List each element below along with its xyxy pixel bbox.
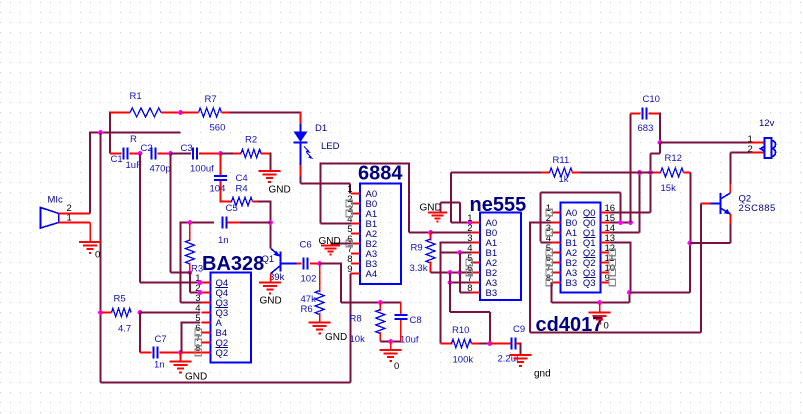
svg-text:R9: R9: [411, 243, 423, 254]
pin stub C6 left: [297, 263, 302, 265]
svg-text:GND: GND: [325, 332, 347, 343]
svg-text:C6: C6: [300, 240, 312, 251]
IC U-cd4017: [561, 203, 601, 293]
svg-text:R10: R10: [452, 325, 469, 336]
svg-text:102: 102: [301, 274, 317, 285]
node C6/R6 junction: [317, 261, 322, 266]
wire to BA328 pin8: [181, 352, 211, 354]
IC U-6884: [360, 184, 401, 285]
wire C4 to R4: [220, 201, 232, 203]
svg-text:15k: 15k: [661, 183, 677, 194]
wire R5 to BA328 pin4: [140, 312, 200, 314]
pin stub cd4017 pin8: [552, 282, 561, 284]
svg-text:3.3k: 3.3k: [410, 263, 428, 274]
pin stub 6884 pin4: [351, 223, 360, 225]
wire D1 to 6884 pin1: [300, 176, 302, 184]
pin stub ne555 pin8: [471, 292, 480, 294]
node C3/C4/R2 junction: [218, 151, 223, 156]
ground cd4017: [599, 303, 601, 313]
pin stub cd4017 pin12: [601, 252, 610, 254]
pin stub 6884 pin6: [351, 243, 360, 245]
pin stub C7 left: [140, 352, 152, 354]
node pin15 junction a: [618, 220, 623, 225]
pin marker box 6884 pin2: [346, 200, 352, 206]
wire C9 to gnd: [520, 343, 522, 355]
capacitor C2: [151, 148, 153, 160]
wire C5 left: [181, 222, 215, 224]
pin stub R8 top: [379, 303, 381, 312]
ground Q1: [259, 282, 281, 284]
capacitor C7: [153, 347, 155, 359]
pin stub R10 right: [472, 343, 480, 345]
node R10/C9 junction: [487, 341, 492, 346]
svg-text:12v: 12v: [759, 118, 775, 129]
pin stub R1 left: [110, 112, 130, 114]
wire C10 right vertical: [659, 113, 661, 143]
pin marker box cd4017 pin10: [609, 269, 615, 275]
svg-text:R11: R11: [553, 155, 570, 166]
ground 0: [390, 342, 392, 351]
pin stub ne555 pin6: [471, 272, 480, 274]
svg-text:C4: C4: [236, 173, 248, 184]
svg-text:C7: C7: [155, 334, 167, 345]
svg-text:R2: R2: [245, 135, 257, 146]
wire cd4017 pin8 gnd loop: [551, 283, 553, 303]
ground mic: [79, 241, 101, 243]
svg-text:6884: 6884: [358, 163, 403, 185]
resistor R11: [550, 168, 573, 177]
svg-text:0: 0: [95, 250, 100, 261]
resistor R7: [199, 108, 222, 117]
pin marker box cd4017 pin7: [546, 269, 552, 275]
capacitor C3: [192, 148, 194, 160]
capacitor C8: [400, 302, 402, 314]
pin stub R12 left: [653, 172, 661, 174]
pin stub C1 right: [130, 153, 141, 155]
pin stub R7 right: [222, 112, 230, 114]
pin stub C10 right: [649, 113, 661, 115]
pin stub R6 top: [319, 264, 321, 293]
wire 6884 pin9 down to rail: [351, 273, 360, 275]
node ne555 pin7 junction: [448, 280, 453, 285]
wire mic pin1 to ground: [89, 223, 91, 243]
wire R8 to C8 bottom: [380, 341, 401, 343]
svg-text:560: 560: [210, 123, 226, 134]
pin stub cd4017 pin7: [552, 272, 561, 274]
pin stub R5 left: [101, 312, 112, 314]
pin stub cd4017 pin15: [601, 222, 610, 224]
node V3 mid: [457, 270, 462, 275]
node cd4017 gnd stem: [597, 300, 602, 305]
pin marker box 6884 pin3: [346, 210, 352, 216]
wire cd4017 pin4/pin15 link: [541, 242, 552, 244]
transistor Q2: [711, 193, 731, 214]
pin marker box ne555 pin6: [466, 269, 472, 275]
svg-text:R4: R4: [236, 184, 248, 195]
svg-text:Q1: Q1: [262, 254, 275, 265]
svg-text:R8: R8: [350, 314, 362, 325]
resistor R2: [233, 153, 241, 155]
pin stub cd4017 pin5: [552, 252, 561, 254]
pin stub C7 right: [160, 352, 181, 354]
pin stub D1 anode: [300, 112, 302, 124]
capacitor C1: [123, 148, 125, 160]
wire R11 row to drop: [451, 172, 541, 174]
wire 6884 pin4 loop over top: [320, 163, 322, 224]
pin stub cd4017 pin11: [601, 262, 610, 264]
wire cd4017 pin2 from ne555 output: [530, 222, 552, 224]
svg-text:A4: A4: [366, 269, 378, 280]
pin marker box BA328 pin8: [195, 349, 201, 355]
svg-text:GND: GND: [319, 236, 341, 247]
node R1/R7 junction: [178, 110, 183, 115]
node ne555 pin1: [468, 220, 473, 225]
svg-text:683: 683: [638, 123, 654, 134]
node Q2 emitter junction: [688, 241, 693, 246]
wire C10 left vertical: [630, 114, 632, 223]
capacitor C4: [214, 175, 227, 177]
wire ne555 pin4: [441, 252, 472, 254]
pin stub R11 left: [541, 172, 550, 174]
pin stub BA328 pin6: [202, 332, 211, 334]
svg-text:R: R: [130, 134, 137, 145]
node C5/R3 junction: [188, 220, 193, 225]
wire top-left horizontal: [90, 132, 180, 134]
resistor R4: [232, 197, 253, 205]
wire long vertical x100: [100, 133, 102, 383]
wire loop down to R9 row: [408, 163, 410, 233]
svg-text:470p: 470p: [150, 164, 171, 175]
svg-text:R5: R5: [114, 294, 126, 305]
wire cd4017 pin16: [610, 212, 651, 214]
pin marker box cd4017 pin3: [546, 229, 552, 235]
svg-text:2SC885: 2SC885: [739, 203, 776, 214]
wire R9 bottom to ne555 pin6: [431, 272, 472, 274]
pin stub mic 2: [59, 213, 91, 215]
pin stub ne555 pin2: [471, 232, 480, 234]
IC U-ne555: [480, 213, 521, 301]
svg-text:8: 8: [467, 283, 472, 294]
pin stub BA328 pin5: [202, 322, 211, 324]
wire R8/C8 top: [341, 302, 401, 304]
wire output bottom horizontal: [530, 332, 701, 334]
svg-text:R1: R1: [130, 91, 142, 102]
svg-text:C8: C8: [410, 315, 422, 326]
ground 6884 pin6: [331, 243, 352, 245]
svg-text:10uf: 10uf: [400, 335, 419, 346]
pin stub cd4017 pin1: [552, 212, 561, 214]
node R9 top junction: [428, 230, 433, 235]
pin stub R9 top: [430, 233, 432, 241]
pin stub BA328 pin3: [202, 302, 211, 304]
svg-text:BA328: BA328: [202, 253, 264, 275]
svg-text:1k: 1k: [559, 174, 569, 185]
node R3 bottom junction: [188, 270, 193, 275]
wire C5 to collector node: [240, 222, 271, 224]
node junction x100: [98, 130, 103, 135]
wire C1 right vertical to BA328 pin1: [139, 154, 141, 283]
pin stub R1 right: [161, 112, 181, 114]
wire feedback x180 vertical: [180, 222, 182, 303]
pin stub C10 left: [631, 113, 641, 115]
pin marker box BA328 pin7: [195, 339, 201, 345]
svg-text:104: 104: [210, 184, 226, 195]
pin stub BA328 pin7: [202, 342, 211, 344]
pin stub BA328 pin4: [202, 312, 211, 314]
node 12v junction: [658, 140, 663, 145]
node R12 left junction: [648, 170, 653, 175]
pin stub C4 bottom: [220, 181, 222, 202]
resistor R8: [376, 310, 385, 334]
pin stub Q2 base: [701, 203, 711, 205]
wire ne555 pin7: [450, 282, 471, 284]
pin stub R8 bottom: [379, 332, 381, 342]
pin stub D1 cathode: [300, 165, 302, 177]
svg-text:R6: R6: [301, 304, 313, 315]
capacitor C5: [222, 217, 224, 229]
svg-text:C10: C10: [643, 94, 660, 105]
svg-text:100uf: 100uf: [190, 164, 214, 175]
capacitor C10: [642, 108, 644, 120]
wire BA328 pin3: [181, 302, 202, 304]
resistor R9: [426, 239, 435, 263]
pin marker box 6884 pin6: [346, 240, 352, 246]
svg-text:4.7: 4.7: [118, 324, 131, 335]
svg-text:C1: C1: [111, 154, 123, 165]
pin stub 6884 pin5: [351, 233, 360, 235]
node V2 top: [448, 270, 453, 275]
pin stub C9 right: [516, 343, 521, 345]
pin stub R7 left: [181, 112, 199, 114]
node C2/C3 junction: [168, 151, 173, 156]
wire Q2 base vertical: [700, 204, 702, 333]
node R5/C7/pin4 junction: [138, 310, 143, 315]
pin stub 12v pin2: [751, 152, 766, 154]
wire Q2 collector to 12v pin2: [729, 153, 731, 184]
wire output vertical x530: [529, 222, 531, 333]
svg-text:D1: D1: [315, 123, 327, 134]
wire to R2: [221, 153, 234, 155]
wire BA328 pin5 loop: [182, 322, 201, 324]
svg-text:ne555: ne555: [470, 194, 527, 216]
svg-text:C2: C2: [141, 143, 153, 154]
pin stub C5 right: [227, 222, 240, 224]
wire bottom rail: [101, 382, 351, 384]
wire R4 to Q1 collector: [258, 201, 271, 203]
wire 12v jog down: [659, 143, 661, 154]
pin stub 12v pin1: [751, 142, 766, 144]
LED D1: [294, 124, 314, 165]
node C1/C2 junction: [138, 151, 143, 156]
pin stub C1 left: [110, 153, 121, 155]
svg-text:R12: R12: [665, 153, 682, 164]
svg-text:C5: C5: [226, 203, 238, 214]
wire R10 to C9: [479, 343, 490, 345]
resistor R10: [452, 339, 472, 347]
pin stub Q2 emitter: [730, 214, 732, 224]
pin stub cd4017 pin3: [552, 232, 561, 234]
resistor R3: [189, 223, 191, 242]
pin stub R6 bottom: [319, 313, 321, 322]
pin stub ne555 pin7: [471, 282, 480, 284]
wire cd4017 pin14: [610, 232, 640, 234]
pin stub 6884 pin3: [351, 213, 360, 215]
svg-text:2: 2: [748, 144, 753, 155]
svg-text:LED: LED: [321, 141, 340, 152]
wire C6 to 6884 pin8: [320, 263, 341, 265]
connector 12v: [761, 138, 776, 158]
resistor R12: [661, 168, 684, 177]
wire R7 to D1: [230, 112, 301, 114]
pin stub R2 right: [261, 153, 271, 155]
wire 12v rail: [660, 142, 751, 144]
pin stub 6884 pin9: [351, 273, 360, 275]
pin stub cd4017 pin6: [552, 262, 561, 264]
wire ne555 gnd down to pin1: [459, 203, 461, 223]
pin stub BA328 pin8: [202, 352, 211, 354]
wire V1 vertical to R10: [440, 242, 442, 344]
pin marker box cd4017 pin12: [609, 249, 615, 255]
svg-text:GND: GND: [185, 372, 207, 383]
wire R2 to ground: [270, 153, 272, 170]
node ne555 pin4 junction: [457, 250, 462, 255]
node C5/collector junction: [268, 220, 273, 225]
pin stub cd4017 pin16: [601, 212, 610, 214]
svg-text:R7: R7: [205, 94, 217, 105]
node pin14 junction: [637, 170, 642, 175]
capacitor C9: [511, 338, 513, 350]
pin stub ne555 pin5: [471, 262, 480, 264]
pin stub 6884 pin1: [351, 193, 360, 195]
pin stub ne555 pin3: [471, 242, 480, 244]
wire V3 vertical: [459, 253, 461, 293]
capacitor C6: [303, 258, 305, 270]
wire R11 to R12: [580, 172, 653, 174]
transistor Q1: [271, 249, 297, 274]
microphone MIc: [41, 208, 59, 229]
node pin15 junction b: [628, 220, 633, 225]
pin stub R5 right: [139, 312, 142, 314]
resistor R5: [112, 308, 132, 316]
pin stub C3 right: [199, 153, 221, 155]
wire R11 drop to pin1: [450, 173, 452, 223]
pin marker box cd4017 pin9: [609, 279, 615, 285]
wire R9 row to ne555 pin2: [431, 232, 472, 234]
wire R3 to BA328 pin2: [189, 272, 191, 293]
svg-text:Q2: Q2: [216, 348, 229, 359]
pin stub C6 right: [310, 263, 320, 265]
wire cd4017 pin15 row: [610, 222, 631, 224]
pin stub BA328 pin2: [202, 292, 211, 294]
svg-text:0: 0: [604, 321, 609, 332]
wire pin13 node to Q2 emitter branch: [630, 292, 691, 294]
pin stub R4 right: [253, 201, 258, 203]
pin stub R11 right: [572, 172, 580, 174]
pin stub cd4017 pin10: [601, 272, 610, 274]
node C7/GND junction: [178, 350, 183, 355]
pin stub cd4017 pin2: [552, 222, 561, 224]
svg-text:0: 0: [394, 361, 399, 372]
wire vertical to R8 row: [340, 263, 342, 303]
pin stub cd4017 pin9: [601, 282, 610, 284]
pin stub R12 right: [684, 172, 691, 174]
pin marker box BA328 pin6: [195, 329, 201, 335]
resistor R6: [315, 291, 324, 315]
pin stub C2 right: [158, 153, 171, 155]
pin stub ne555 pin1: [471, 222, 480, 224]
svg-text:1n: 1n: [154, 360, 165, 371]
svg-text:Q3: Q3: [583, 278, 596, 289]
svg-text:C3: C3: [181, 143, 193, 154]
wire mic pin2 vertical: [89, 132, 91, 214]
ground R2: [259, 170, 281, 172]
ground BA328: [180, 353, 182, 362]
ground gnd: [510, 354, 532, 356]
pin marker box cd4017 pin1: [546, 209, 552, 215]
wire C2 right vertical to R3: [170, 154, 172, 273]
wire R1 left corner: [109, 112, 111, 154]
pin stub 6884 pin8: [351, 263, 360, 265]
svg-text:GND: GND: [269, 185, 291, 196]
pin stub C9 left: [490, 343, 512, 345]
pin stub ne555 pin4: [471, 252, 480, 254]
pin stub R10 left: [441, 343, 453, 345]
resistor R1: [130, 108, 161, 117]
svg-text:C9: C9: [513, 324, 525, 335]
pin stub R9 bottom: [430, 262, 432, 273]
node R5 left junction: [98, 310, 103, 315]
pin stub C4 top: [220, 154, 222, 176]
pin stub mic 1: [59, 222, 91, 224]
op-amp U-BA328: [211, 273, 252, 363]
pin stub BA328 pin1: [202, 282, 211, 284]
wire C7 vertical: [139, 313, 141, 353]
pin stub cd4017 pin14: [601, 232, 610, 234]
svg-text:100k: 100k: [453, 355, 474, 366]
pin marker box cd4017 pin8: [546, 279, 552, 285]
pin stub cd4017 pin13: [601, 242, 610, 244]
svg-text:1n: 1n: [218, 235, 229, 246]
pin marker box cd4017 pin5: [546, 249, 552, 255]
pin marker box cd4017 pin11: [609, 259, 615, 265]
wire ne555 pin3: [441, 242, 472, 244]
node pin13 bottom junction: [627, 290, 632, 295]
wire R12 down to emitter node: [690, 173, 692, 244]
node ground 0 junction: [388, 339, 393, 344]
wire V2 vertical jog to R10/C9 node: [449, 273, 451, 313]
wire emitter node to Q2: [690, 242, 731, 244]
svg-text:10k: 10k: [350, 334, 366, 345]
pin stub cd4017 pin4: [552, 242, 561, 244]
node BA328 pin1: [198, 280, 203, 285]
pin stub 6884 pin2: [351, 203, 360, 205]
pin marker box ne555 pin5: [466, 259, 472, 265]
wire cd4017 pin13: [610, 242, 631, 244]
pin stub Q1 emitter: [270, 274, 272, 283]
pin stub 6884 pin7: [351, 253, 360, 255]
node R8 top: [378, 300, 383, 305]
node BA328 pin2: [198, 290, 203, 295]
pin stub Q2 collector: [729, 183, 731, 193]
wire C2 to C3: [171, 153, 192, 155]
pin marker box cd4017 pin6: [546, 259, 552, 265]
svg-text:8: 8: [195, 343, 200, 354]
svg-text:GND: GND: [260, 296, 282, 307]
ground R6: [309, 322, 331, 324]
svg-text:MIc: MIc: [48, 195, 64, 206]
svg-text:gnd: gnd: [534, 369, 551, 380]
svg-text:B3: B3: [566, 278, 578, 289]
